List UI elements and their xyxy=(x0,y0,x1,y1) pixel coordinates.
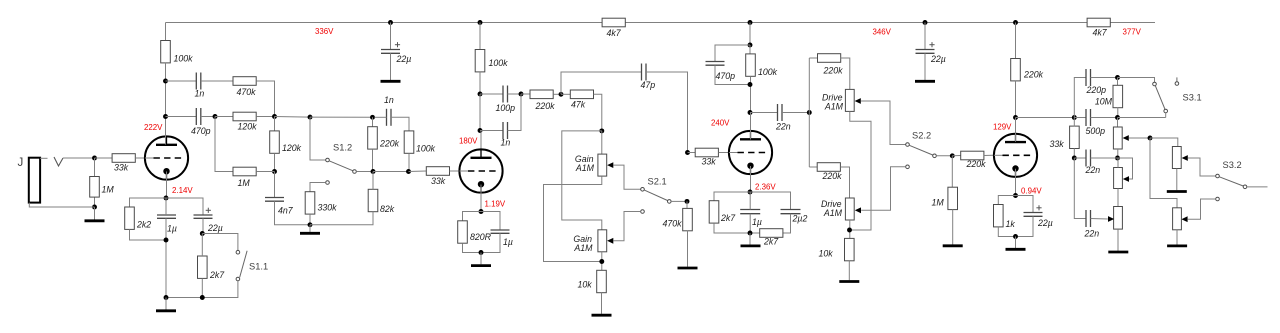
wire to S1.1 top xyxy=(202,234,238,251)
wire 22n1 row xyxy=(1074,157,1086,159)
svg-text:470p: 470p xyxy=(191,126,211,136)
wire potB wiper to S3.2 xyxy=(1188,158,1216,176)
svg-text:47k: 47k xyxy=(571,100,586,110)
resistor 2k7 (series to 2u2) xyxy=(760,229,783,238)
svg-text:220k: 220k xyxy=(966,159,987,169)
capacitor 1u (V2 cathode) xyxy=(491,230,510,233)
wire 220k4 row xyxy=(952,155,960,157)
svg-text:10k: 10k xyxy=(819,249,834,259)
node V4 cathode row xyxy=(1013,193,1018,198)
wire to V4 ground xyxy=(1015,237,1017,249)
resistor 33k (grid stopper V2) xyxy=(426,167,449,176)
wire potC to potE xyxy=(1117,189,1119,207)
wire gain2 top link xyxy=(562,131,602,230)
resistor 10M xyxy=(1113,85,1123,107)
svg-text:1n: 1n xyxy=(501,138,511,148)
label 22u value xyxy=(207,223,223,233)
potentiometer Gain A1M (lower) xyxy=(598,230,607,252)
svg-text:100k: 100k xyxy=(416,144,436,154)
svg-text:470k: 470k xyxy=(237,87,257,97)
wire V2 cathode xyxy=(480,185,482,212)
node V4 plate xyxy=(1013,115,1018,120)
wire throwB to gain2 wiper xyxy=(614,212,641,241)
switch S2.2 blade xyxy=(909,145,932,155)
svg-text:100k: 100k xyxy=(758,67,778,77)
capacitor 500p xyxy=(1086,109,1091,126)
capacitor 1n (V1 plate) xyxy=(196,73,201,90)
wire S3.2 throwB to potD wiper xyxy=(1188,199,1216,219)
svg-text:22µ: 22µ xyxy=(1037,218,1053,228)
label 500p value xyxy=(1086,126,1106,136)
node 22n/drive left column xyxy=(807,110,812,115)
wire input to grid node xyxy=(63,157,95,159)
wire y117 row mid xyxy=(1074,117,1086,119)
wire row left to 2k7 xyxy=(714,192,750,201)
label 33k value xyxy=(1050,139,1065,149)
svg-text:336V: 336V xyxy=(315,27,334,36)
resistor 220k (drive upper) xyxy=(818,54,841,63)
wire plate lead xyxy=(480,131,482,158)
label 120k value xyxy=(238,122,258,132)
svg-text:47p: 47p xyxy=(641,80,656,90)
wire to S3.1 top xyxy=(1118,78,1155,83)
wire plate node down xyxy=(479,94,481,131)
wire throwB to 330k xyxy=(310,183,326,192)
wire 1n3 right to 100k3 xyxy=(391,117,409,131)
potentiometer Gain A1M (upper) xyxy=(598,154,607,176)
wire row right to 2u2 xyxy=(750,192,791,210)
switch S3.2 top contact xyxy=(1216,174,1220,178)
svg-text:1n: 1n xyxy=(384,95,394,105)
label 100k value xyxy=(416,144,436,154)
wire 120k2 to 1M node xyxy=(274,153,276,171)
node rail/22u1 xyxy=(388,20,393,25)
wire node to 120k xyxy=(215,116,233,118)
label 22u2 value xyxy=(930,54,946,64)
ground potD xyxy=(1167,244,1187,247)
wire drive1 bottom bypass xyxy=(850,111,872,230)
switch S2.2 throw B xyxy=(906,165,910,169)
wire 22n1 to node xyxy=(1091,157,1118,159)
label 220k value xyxy=(823,66,844,76)
wire 33k4 leads xyxy=(1073,118,1075,127)
svg-text:4n7: 4n7 xyxy=(278,206,294,216)
wire 120k to col274 xyxy=(256,116,274,118)
label 4k7 value xyxy=(607,28,622,38)
wire 220k6 right drop xyxy=(841,58,850,89)
wire y117 to S3.1 xyxy=(1118,117,1166,119)
wire 22u1 top lead xyxy=(390,23,392,50)
wire 47k to gain column xyxy=(594,94,602,131)
node V3 cathode row xyxy=(748,190,753,195)
wire row to 1u2 xyxy=(481,212,500,231)
wire S3.1 bottom to y117 xyxy=(1165,113,1167,118)
node V4 cathode gnd xyxy=(1013,234,1018,239)
node potA/22n1/potC xyxy=(1115,156,1120,161)
wiper arrow potC xyxy=(1123,176,1129,182)
wire node to 220k5 xyxy=(521,93,530,95)
label 4k7 value xyxy=(1093,28,1108,38)
triode V2 (180V) xyxy=(459,149,502,192)
potentiometer Drive A1M (upper) xyxy=(845,89,854,111)
label 180V xyxy=(459,137,478,146)
wiper arrow potD xyxy=(1181,216,1187,222)
wire 470p row left xyxy=(166,116,197,118)
label 220k value xyxy=(966,159,987,169)
label 377V xyxy=(1123,28,1142,37)
wire 1u3 leads xyxy=(749,192,751,210)
svg-text:S2.1: S2.1 xyxy=(648,177,667,187)
wire drop to 220k lower xyxy=(809,166,817,168)
svg-text:1k: 1k xyxy=(1006,219,1016,229)
wire 2k7 leads xyxy=(201,234,203,257)
switch S2.1 blade xyxy=(644,190,667,200)
node 500p/10M/potA xyxy=(1115,115,1120,120)
triode V3 (240V) xyxy=(729,131,772,174)
switch S2.1 throw B xyxy=(641,210,645,214)
svg-text:2k7: 2k7 xyxy=(720,213,736,223)
svg-text:A1M: A1M xyxy=(824,102,844,112)
ground drive 10k xyxy=(839,280,859,283)
wire gain cold link xyxy=(544,176,602,261)
wire potA bottom xyxy=(1117,149,1119,158)
wire 100k3 bottom xyxy=(408,153,410,171)
wire rail to V3 column xyxy=(749,23,751,46)
capacitor 1u (V1 cathode) xyxy=(157,215,176,218)
wire 470k2 top lead xyxy=(686,201,688,208)
label 820R value xyxy=(470,232,492,242)
label 4n7 value xyxy=(278,206,294,216)
wire potE bottom xyxy=(1117,229,1119,251)
switch S2.1 throw A xyxy=(641,188,645,192)
wire 100p row xyxy=(480,93,503,95)
wire 33k3 to V3 grid xyxy=(719,152,729,154)
wire to V3 ground xyxy=(749,233,751,245)
wire gnd stub xyxy=(309,225,311,232)
resistor 220k (drive lower) xyxy=(817,163,840,172)
capacitor 220p xyxy=(1086,69,1091,86)
triode V4 (129V) xyxy=(994,134,1037,177)
wire 33k2 to V2 grid xyxy=(450,170,459,172)
wire 470k to col274 xyxy=(256,81,274,117)
wire 100p to node xyxy=(508,93,522,95)
label 470p value xyxy=(716,71,736,81)
label 22n value xyxy=(1085,165,1101,175)
svg-text:2k7: 2k7 xyxy=(763,237,779,247)
node V2 cathode gnd xyxy=(479,250,484,255)
label 2k7 value xyxy=(763,237,779,247)
resistor 220k (coupling) xyxy=(530,90,553,99)
wire 33k to V1 grid xyxy=(135,157,144,159)
potentiometer tone E (bass) xyxy=(1114,207,1123,230)
label 336V xyxy=(315,27,334,36)
label 100k value xyxy=(489,58,509,68)
node 330k ground row xyxy=(308,222,313,227)
wire 10M bottom xyxy=(1117,108,1119,118)
label Gain lower line2 xyxy=(573,243,593,253)
wiper arrow gain1 xyxy=(607,162,613,168)
node 470p bottom xyxy=(748,82,753,87)
wire 470p2 loop top xyxy=(715,45,750,61)
capacitor 22u (V4 cathode) xyxy=(1024,213,1043,217)
wire S1.2 drop xyxy=(310,117,326,160)
wire 1M3 leads xyxy=(951,156,953,187)
svg-text:2µ2: 2µ2 xyxy=(792,214,808,224)
node gain2/10k xyxy=(599,259,604,264)
svg-text:22µ: 22µ xyxy=(930,54,946,64)
wire to V2 ground xyxy=(480,253,482,265)
wire S1.2 common to 82k node xyxy=(356,171,373,173)
label 33k value xyxy=(702,157,717,167)
switch S1.2 common xyxy=(353,170,357,174)
svg-text:S1.1: S1.1 xyxy=(249,262,268,272)
label S3.2 xyxy=(1223,160,1242,170)
label Gain upper line1 xyxy=(575,154,594,164)
svg-text:220k: 220k xyxy=(823,66,844,76)
wire col274 to 4n7 xyxy=(274,172,276,198)
label 1u value xyxy=(752,217,762,227)
wire potA leads xyxy=(1117,118,1119,128)
ground V3 cathode xyxy=(741,244,761,247)
svg-text:222V: 222V xyxy=(144,123,163,132)
wire 1M2 leads xyxy=(94,158,96,207)
wire to input ground xyxy=(94,207,96,220)
wire 220p riser xyxy=(1074,78,1086,118)
svg-text:22n: 22n xyxy=(1084,229,1100,239)
svg-text:2k2: 2k2 xyxy=(136,220,151,230)
svg-text:33k: 33k xyxy=(431,176,446,186)
resistor 33k (tone) xyxy=(1070,126,1080,148)
resistor 220k (vertical pair left) xyxy=(368,127,378,149)
resistor 100k (V3 plate load) xyxy=(746,54,756,76)
svg-text:33k: 33k xyxy=(1050,139,1065,149)
wire 22n row xyxy=(750,112,778,114)
switch S1.1 bottom contact xyxy=(236,277,240,281)
wire V3 plate lead xyxy=(750,113,752,140)
resistor 120k (vertical) xyxy=(270,131,280,153)
wire potD bottom xyxy=(1176,230,1178,245)
svg-text:1.19V: 1.19V xyxy=(485,200,506,209)
wire 1M3 bottom xyxy=(952,210,954,245)
label S2.2 xyxy=(912,131,931,141)
wire 2k7 bottom xyxy=(201,279,203,298)
label 1.19V xyxy=(485,200,506,209)
wire drive1 wiper to S2.2 xyxy=(861,101,906,145)
resistor 2k2 xyxy=(125,207,135,229)
svg-text:0.94V: 0.94V xyxy=(1021,187,1042,196)
resistor 2k7 (cathode switch) xyxy=(198,256,208,278)
svg-text:470k: 470k xyxy=(663,219,683,229)
node S2.1/470k/grid column xyxy=(685,199,690,204)
capacitor 22u (V1 cathode) xyxy=(194,215,213,218)
wire 22u2 bottom lead xyxy=(924,53,926,81)
svg-text:22n: 22n xyxy=(775,122,791,132)
label 0.94V xyxy=(1021,187,1042,196)
resistor 2k7 (V3 cathode) xyxy=(709,201,719,223)
wire potC rheostat link xyxy=(1118,158,1133,179)
svg-text:82k: 82k xyxy=(380,204,395,214)
ground V4 cathode xyxy=(1006,248,1026,251)
label 10k value xyxy=(578,280,593,290)
capacitor 100p xyxy=(503,86,508,103)
resistor 4k7 (second PSU dropper) xyxy=(1087,18,1110,27)
wire 470p to node xyxy=(201,116,215,118)
wire 22n2 to potE wiper xyxy=(1091,218,1108,221)
svg-text:346V: 346V xyxy=(873,28,892,37)
label R3 value xyxy=(174,54,194,64)
svg-text:1M: 1M xyxy=(932,198,945,208)
label 100p value xyxy=(496,103,516,113)
node V2 plate/100p xyxy=(478,92,483,97)
ground 22u1 xyxy=(381,80,401,83)
wire rail to 220k3 xyxy=(1015,23,1017,59)
wire 10M leads xyxy=(1117,78,1119,86)
label 1M value xyxy=(932,198,945,208)
wire 2k2 bottom xyxy=(130,229,167,240)
input arrow V xyxy=(54,157,63,166)
node rail/22u2 xyxy=(923,20,928,25)
capacitor 4n7 xyxy=(265,198,284,202)
resistor 1k xyxy=(994,205,1004,227)
resistor 10k (gain bottom) xyxy=(597,270,607,292)
node col274 top xyxy=(272,114,277,119)
wire y171 to 33k2 xyxy=(409,170,427,173)
node V1 cathode row xyxy=(164,196,169,201)
potentiometer tone B xyxy=(1172,147,1181,169)
node 470p top xyxy=(748,43,753,48)
label 330k value xyxy=(318,203,338,213)
wire grid node to 33k xyxy=(95,157,113,159)
wire 4n7 to bottom row xyxy=(275,201,311,225)
potentiometer tone C (mid) xyxy=(1114,168,1123,189)
label 22u1 value xyxy=(396,54,412,64)
wire jack sleeve xyxy=(29,203,94,207)
potentiometer tone A (treble) xyxy=(1113,127,1122,149)
wire 470k2 bottom xyxy=(687,231,689,267)
svg-text:820R: 820R xyxy=(470,232,492,242)
switch S1.1 blade xyxy=(240,251,247,277)
switch S1.1 top contact xyxy=(236,250,240,254)
wire throwB to drive2 wiper xyxy=(861,167,906,211)
svg-text:33k: 33k xyxy=(702,157,717,167)
wire B+ rail xyxy=(166,22,1156,24)
wire 82k bottom lead xyxy=(310,212,373,225)
wire 100k4 leads xyxy=(749,45,751,54)
wire dot to 2k7 series xyxy=(750,232,760,234)
node V2 plate/1n row xyxy=(478,128,483,133)
wire 820R bottom xyxy=(463,243,482,252)
jack J xyxy=(29,158,40,203)
label 1k value xyxy=(1006,219,1016,229)
resistor 100k (V2 plate load) xyxy=(475,50,485,72)
svg-text:S1.2: S1.2 xyxy=(333,143,352,153)
node 100p/220k xyxy=(519,92,524,97)
svg-text:180V: 180V xyxy=(459,137,478,146)
wire 22n2 drop xyxy=(1074,158,1086,219)
label 10k value xyxy=(819,249,834,259)
svg-text:100k: 100k xyxy=(489,58,509,68)
node rail/100k2 xyxy=(478,20,483,25)
wire 1u bottom xyxy=(165,218,167,297)
svg-text:2.14V: 2.14V xyxy=(172,186,193,195)
svg-text:1µ: 1µ xyxy=(752,217,762,227)
wire 10k to ground xyxy=(601,293,603,314)
resistor R3 100k (V1 plate load) xyxy=(161,41,171,63)
resistor 33k (grid stopper V1) xyxy=(112,154,135,163)
svg-text:500p: 500p xyxy=(1086,126,1106,136)
svg-text:A1M: A1M xyxy=(823,208,843,218)
wire 22n to drive column xyxy=(782,112,809,114)
svg-text:100p: 100p xyxy=(496,103,516,113)
resistor 4k7 (first PSU dropper) xyxy=(602,18,625,27)
ground V1 cathode xyxy=(156,309,176,312)
node input/1M xyxy=(92,156,97,161)
node rail/100k4 xyxy=(748,20,753,25)
potentiometer tone D xyxy=(1173,208,1182,230)
resistor 10k (drive bottom) xyxy=(845,238,855,260)
ground 22u2 xyxy=(915,80,935,83)
wire S2.2 common to node xyxy=(936,155,952,157)
switch S2.2 throw A xyxy=(906,143,910,147)
switch S3.1 top contact xyxy=(1153,82,1157,86)
wire 82k top lead xyxy=(372,172,374,190)
wire 1u2 bottom xyxy=(481,233,500,252)
label S3.1 xyxy=(1183,93,1202,103)
wire grid node to 33k3 xyxy=(688,152,696,154)
wire 1u3 bottom xyxy=(749,214,751,233)
wiper arrow potE xyxy=(1108,216,1114,222)
wire wiper row to potB xyxy=(1150,138,1178,147)
wire 330k to gnd node xyxy=(309,214,311,225)
wire 1n row left xyxy=(166,80,197,82)
switch S3.1 bottom contact xyxy=(1164,109,1168,113)
wire 220k2 bottom xyxy=(372,149,374,171)
wire cathode row left to 2k2 xyxy=(130,198,167,207)
capacitor 22n (coupling V3) xyxy=(778,104,783,121)
node 220k/47k/47p xyxy=(559,92,564,97)
capacitor 22u (first filter) xyxy=(381,50,400,54)
node 1u/gnd row xyxy=(164,295,169,300)
svg-text:120k: 120k xyxy=(238,122,258,132)
label 2.36V xyxy=(755,183,776,192)
wire 47p riser left xyxy=(561,72,642,94)
label 82k value xyxy=(380,204,395,214)
node V3 cathode gnd xyxy=(748,231,753,236)
wire drive2 bottom xyxy=(849,220,851,239)
node plate/470p row xyxy=(163,114,168,119)
switch S2.1 common xyxy=(668,200,672,204)
resistor 220k (V4 plate load) xyxy=(1011,59,1021,81)
wire V4 plate lead xyxy=(1015,118,1017,142)
wire y116 row right xyxy=(310,116,373,118)
svg-text:2k7: 2k7 xyxy=(209,270,225,280)
node plate/1n row xyxy=(163,79,168,84)
wire 500p to node xyxy=(1091,117,1118,119)
label J (jack) xyxy=(18,157,24,169)
node y171 left xyxy=(371,169,376,174)
node 22u/2k7/S1.1 xyxy=(200,231,205,236)
wire 1n to 470k xyxy=(201,80,233,82)
wire 47p right to V3 grid column xyxy=(646,72,688,153)
resistor 220k (grid V4) xyxy=(961,151,984,160)
wiper arrow drive2 xyxy=(855,207,861,213)
svg-text:120k: 120k xyxy=(282,143,302,153)
node y171 right xyxy=(406,169,411,174)
resistor 470k xyxy=(233,77,256,86)
label Gain upper line2 xyxy=(575,163,595,173)
svg-text:22µ: 22µ xyxy=(207,223,223,233)
wire 220k3 to plate node xyxy=(1015,81,1017,118)
